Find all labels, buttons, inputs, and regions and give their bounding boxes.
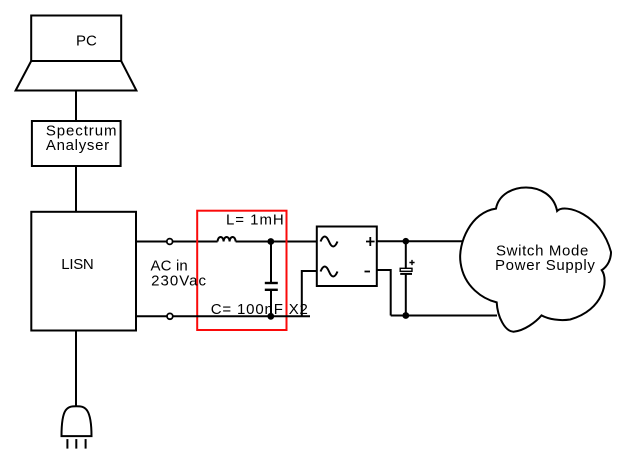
filter red box	[197, 211, 286, 330]
AC symbol bottom	[321, 267, 338, 277]
terminal live	[167, 239, 173, 245]
electrolytic capacitor polarity plus	[409, 260, 414, 265]
capacitor C lead upper	[270, 242, 272, 284]
terminal neutral	[167, 313, 173, 319]
minus label	[365, 271, 371, 273]
electrolytic capacitor lead upper	[405, 241, 407, 268]
mains plug prong 1	[66, 439, 68, 449]
wire Spectrum Analyser to LISN	[75, 166, 77, 212]
wire LISN live output	[136, 241, 167, 243]
wire LISN neutral output	[136, 315, 167, 317]
wire DC minus rail	[391, 315, 497, 317]
svg-text:LISN: LISN	[61, 256, 93, 273]
svg-text:PC: PC	[76, 32, 97, 49]
wire DC minus	[377, 270, 391, 316]
electrolytic capacitor lead lower	[405, 274, 407, 316]
node junction live-capacitor	[267, 238, 274, 245]
plus label	[366, 237, 375, 246]
svg-text:Analyser: Analyser	[46, 137, 110, 154]
cloud Switch Mode Power Supply	[460, 187, 611, 331]
node DC minus junction	[402, 312, 409, 319]
svg-text:Power Supply: Power Supply	[495, 257, 596, 274]
svg-text:230Vac: 230Vac	[151, 273, 207, 290]
wire DC plus	[377, 240, 467, 242]
PC laptop screen	[31, 16, 121, 62]
wire neutral riser to rectifier	[302, 271, 317, 316]
wire PC to Spectrum Analyser	[75, 91, 77, 122]
mains plug prong 3	[85, 439, 87, 449]
bridge rectifier box	[317, 227, 377, 287]
capacitor C plate lower	[265, 289, 278, 291]
AC symbol top	[321, 237, 338, 247]
mains plug body	[62, 406, 92, 436]
mains plug prong 2	[75, 439, 77, 449]
PC laptop base	[16, 61, 137, 91]
capacitor C lead lower	[270, 290, 272, 317]
electrolytic capacitor negative plate	[400, 273, 412, 275]
node DC plus junction	[403, 238, 410, 245]
box Spectrum Analyser	[32, 121, 121, 166]
svg-text:C= 100nF X2: C= 100nF X2	[211, 301, 309, 318]
wire terminal to inductor	[173, 241, 218, 243]
node junction neutral-capacitor	[267, 313, 274, 320]
inductor L1	[218, 237, 236, 242]
wire neutral rail	[173, 315, 310, 317]
svg-text:L= 1mH: L= 1mH	[226, 211, 285, 228]
LISN box	[31, 212, 136, 331]
capacitor C plate upper	[265, 282, 278, 284]
wire LISN to mains plug	[75, 331, 77, 408]
electrolytic capacitor positive plate	[400, 268, 412, 271]
wire inductor to rectifier	[236, 241, 317, 243]
